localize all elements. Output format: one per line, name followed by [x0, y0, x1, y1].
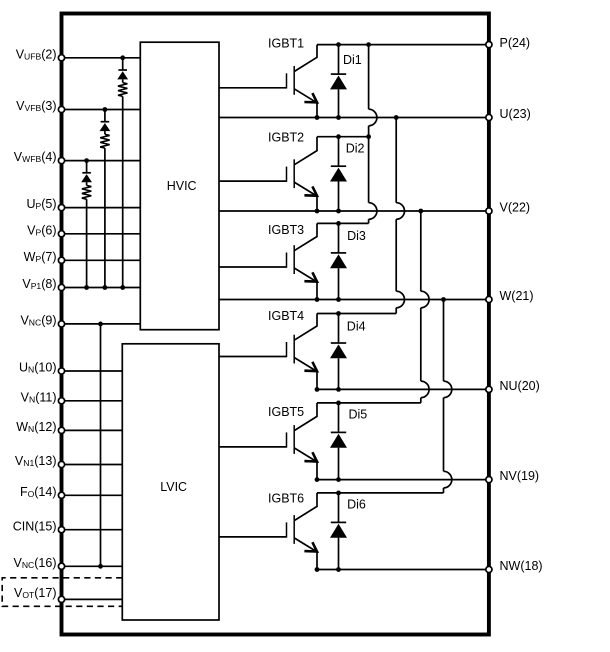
- bootstrap diode D2 (cathode up): [100, 110, 111, 135]
- bootstrap resistor R3: [82, 185, 91, 199]
- pin VP1(8): [22, 277, 64, 291]
- bootstrap diode D3 (cathode up): [81, 161, 92, 186]
- svg-text:FO(14): FO(14): [20, 485, 57, 499]
- pin VUFB(2): [16, 47, 65, 61]
- pin VWFB(4): [14, 150, 65, 164]
- junction Di1 cathode on collector rail: [336, 42, 341, 47]
- pin WN(12): [16, 420, 64, 434]
- svg-text:UP(5): UP(5): [26, 197, 56, 211]
- wire IGBT6 collector rail: [317, 492, 444, 494]
- pin WP(7): [24, 250, 65, 264]
- wire pin 6 VP to IC: [62, 233, 141, 235]
- bootstrap resistor R1: [118, 83, 127, 97]
- pin UP(5): [26, 197, 64, 211]
- transistor IGBT3: [219, 223, 317, 299]
- svg-text:VOT(17): VOT(17): [14, 586, 57, 600]
- pin VN1(13): [15, 454, 65, 468]
- wire P bus feed to IGBT2/IGBT3 collectors (hops U,V): [369, 45, 377, 224]
- wire bootstrap 3 down to VP1 rail: [86, 199, 88, 287]
- IC block LVIC U2: [122, 344, 219, 620]
- pin VVFB(3): [16, 99, 64, 113]
- wire pin 16 VNC to IC: [62, 565, 123, 567]
- svg-text:Di4: Di4: [347, 319, 366, 333]
- svg-text:V(22): V(22): [500, 201, 531, 215]
- pin W(21): [486, 289, 534, 303]
- wire bootstrap 1 down to VP1 rail: [122, 96, 124, 287]
- diode Di1: [330, 45, 347, 118]
- wire pin 5 UP to IC: [62, 207, 141, 209]
- svg-text:CIN(15): CIN(15): [13, 519, 57, 533]
- pin U(23): [486, 107, 531, 121]
- wire pin 8 VP1 to IC: [62, 287, 141, 289]
- svg-text:IGBT6: IGBT6: [268, 492, 304, 506]
- svg-text:NU(20): NU(20): [500, 379, 540, 393]
- node bootstrap tap 1: [120, 55, 125, 60]
- wire pin 13 VN1 to IC: [62, 464, 123, 466]
- wire NV rail: [317, 479, 489, 481]
- pin VNC(16): [14, 556, 65, 570]
- wire U to IGBT4 collector (hops V,W): [396, 118, 404, 314]
- pin NW(18): [486, 559, 543, 573]
- svg-text:IGBT4: IGBT4: [268, 309, 304, 323]
- junction Di4 anode on emitter rail: [336, 387, 341, 392]
- svg-text:NW(18): NW(18): [500, 559, 543, 573]
- junction IGBT4 emitter on rail: [315, 387, 320, 392]
- junction Di5 cathode on collector rail: [336, 401, 341, 406]
- wire pin 11 VN to IC: [62, 400, 123, 402]
- svg-text:VNC(16): VNC(16): [14, 556, 57, 570]
- junction Di5 anode on emitter rail: [336, 477, 341, 482]
- junction Di2 cathode on collector rail: [336, 134, 341, 139]
- wire IGBT3 collector rail: [317, 222, 369, 224]
- wire P bus rail: [317, 44, 489, 46]
- diode Di5: [330, 403, 347, 480]
- wire pin 9 VNC to IC: [62, 323, 141, 325]
- junction P feed on IGBT2 collector: [366, 134, 371, 139]
- pin VN(11): [21, 390, 65, 404]
- junction on VP1 rail: [120, 285, 125, 290]
- junction V feed on V rail: [418, 209, 423, 214]
- svg-text:UN(10): UN(10): [19, 361, 56, 375]
- svg-text:Di1: Di1: [343, 53, 362, 67]
- junction Di3 cathode on collector rail: [336, 221, 341, 226]
- wire bootstrap 2 down to VP1 rail: [104, 148, 106, 287]
- pin NU(20): [486, 379, 540, 393]
- wire pin 14 FO to IC: [62, 494, 123, 496]
- wire V output rail: [219, 210, 489, 212]
- wire W to IGBT6 collector (hops NU,NV): [444, 300, 452, 493]
- svg-text:Di5: Di5: [349, 408, 368, 422]
- pin VNC(9): [20, 314, 64, 328]
- wire IGBT4 collector rail: [317, 313, 396, 315]
- svg-text:IGBT2: IGBT2: [268, 130, 304, 144]
- svg-text:U(23): U(23): [500, 107, 531, 121]
- dashed optional-pin box (VOT): [2, 578, 122, 607]
- bootstrap diode D1 (cathode up): [117, 58, 128, 83]
- svg-text:VN(11): VN(11): [21, 390, 57, 404]
- junction IGBT2 emitter on rail: [315, 209, 320, 214]
- wire pin 15 CIN to IC: [62, 529, 123, 531]
- wire U output rail: [219, 117, 489, 119]
- wire pin 2 VUFB to IC: [62, 57, 141, 59]
- pin VOT(17): [14, 586, 65, 603]
- svg-text:Di6: Di6: [347, 498, 366, 512]
- svg-text:HVIC: HVIC: [167, 179, 197, 193]
- junction Di3 anode on emitter rail: [336, 297, 341, 302]
- junction P feed on P bus: [366, 42, 371, 47]
- junction U feed on U rail: [394, 115, 399, 120]
- wire NW rail: [317, 569, 489, 571]
- svg-text:LVIC: LVIC: [160, 480, 187, 494]
- svg-text:NV(19): NV(19): [500, 469, 540, 483]
- svg-text:Di3: Di3: [347, 229, 366, 243]
- junction on VP1 rail: [84, 285, 89, 290]
- junction IGBT3 emitter on rail: [315, 297, 320, 302]
- wire pin 7 WP to IC: [62, 259, 141, 261]
- diode Di6: [330, 493, 347, 570]
- junction VNC(16): [98, 564, 103, 569]
- junction VNC(9): [98, 322, 103, 327]
- transistor IGBT1: [219, 45, 317, 118]
- junction IGBT5 emitter on rail: [315, 477, 320, 482]
- node bootstrap tap 2: [103, 107, 108, 112]
- transistor IGBT4: [219, 314, 317, 390]
- transistor IGBT6: [219, 493, 317, 570]
- svg-text:VN1(13): VN1(13): [15, 454, 57, 468]
- svg-text:IGBT1: IGBT1: [268, 37, 304, 51]
- diode Di3: [330, 223, 347, 299]
- pin VP(6): [27, 223, 64, 237]
- junction Di6 anode on emitter rail: [336, 567, 341, 572]
- node bootstrap tap 3: [84, 158, 89, 163]
- wire IGBT2 collector rail: [317, 136, 369, 138]
- junction on VP1 rail: [103, 285, 108, 290]
- svg-text:Di2: Di2: [346, 141, 365, 155]
- junction W feed on W rail: [441, 297, 446, 302]
- transistor IGBT5: [219, 403, 317, 480]
- junction Di4 cathode on collector rail: [336, 311, 341, 316]
- svg-text:W(21): W(21): [500, 289, 534, 303]
- diode Di2: [330, 137, 347, 211]
- pin NV(19): [486, 469, 539, 483]
- wire V to IGBT5 collector (hops W,NU): [421, 211, 429, 403]
- diode Di4: [330, 314, 347, 390]
- pin FO(14): [20, 485, 65, 499]
- junction Di1 anode on emitter rail: [336, 115, 341, 120]
- wire pin 3 VVFB to IC: [62, 109, 141, 111]
- wire pin 12 WN to IC: [62, 429, 123, 431]
- wire NU rail: [317, 388, 489, 390]
- svg-text:WN(12): WN(12): [16, 420, 56, 434]
- svg-text:IGBT3: IGBT3: [268, 223, 304, 237]
- wire IGBT5 collector rail: [317, 402, 421, 404]
- IC block HVIC U1: [140, 42, 219, 330]
- junction Di6 cathode on collector rail: [336, 491, 341, 496]
- pin V(22): [486, 201, 530, 215]
- junction Di2 anode on emitter rail: [336, 209, 341, 214]
- svg-text:IGBT5: IGBT5: [268, 405, 304, 419]
- svg-text:VP(6): VP(6): [27, 223, 56, 237]
- bootstrap resistor R2: [100, 134, 109, 148]
- module package outline: [62, 14, 489, 635]
- pin P(24): [486, 36, 530, 50]
- wire W output rail: [219, 299, 489, 301]
- pin UN(10): [19, 361, 65, 375]
- junction IGBT1 emitter on rail: [315, 115, 320, 120]
- transistor IGBT2: [219, 137, 317, 211]
- wire VNC(9) to VNC(16): [100, 324, 102, 566]
- junction IGBT6 emitter on rail: [315, 567, 320, 572]
- wire pin 10 UN to IC: [62, 370, 123, 372]
- wire pin 17 VOT to IC: [62, 598, 123, 600]
- pin CIN(15): [13, 519, 65, 533]
- svg-text:P(24): P(24): [500, 36, 531, 50]
- wire pin 4 VWFB to IC: [62, 160, 141, 162]
